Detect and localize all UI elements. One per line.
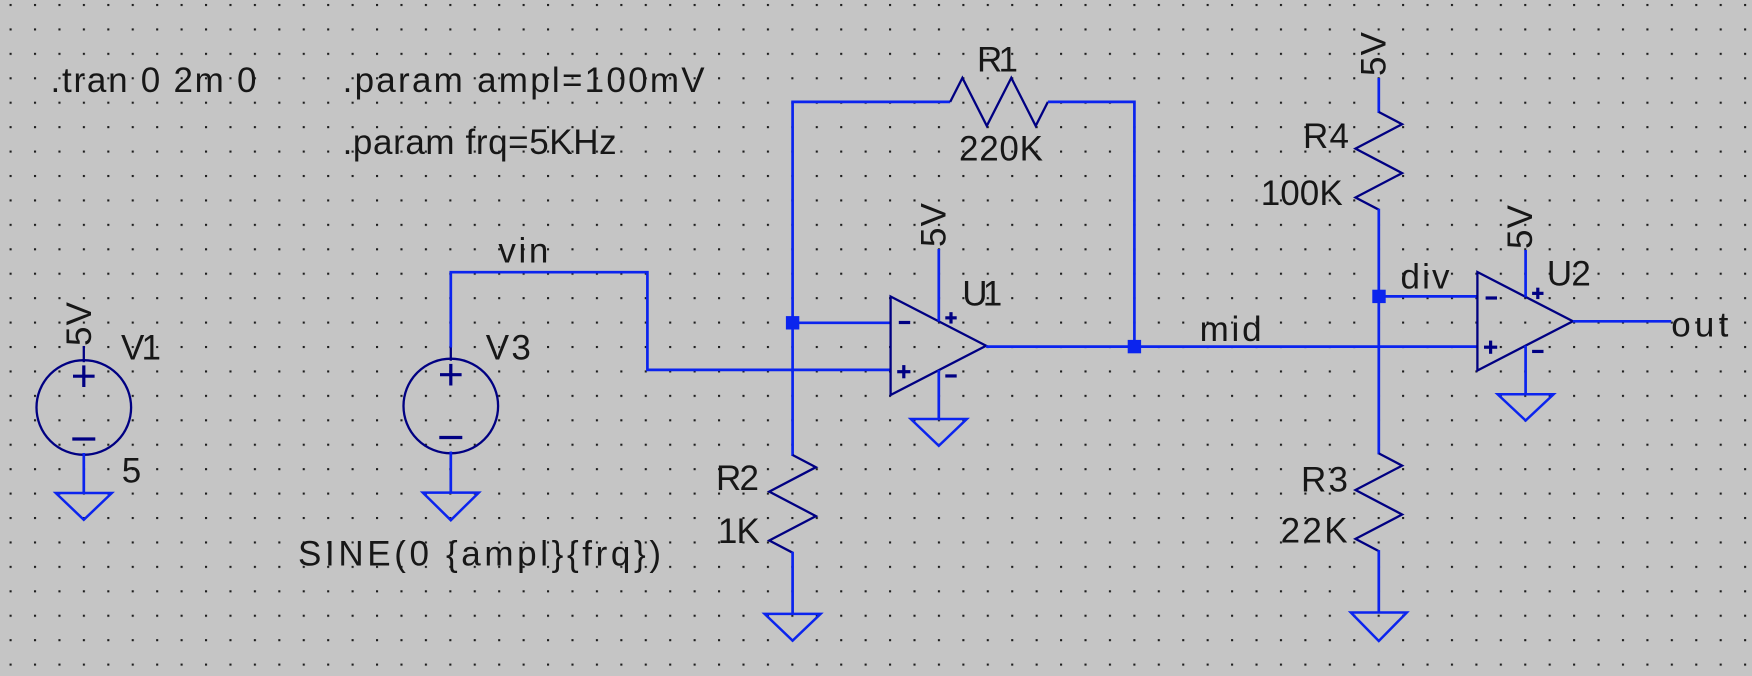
wire feedback right (R1 down to mid) [1048,102,1135,347]
junction node mid [1128,340,1141,353]
value label 100K (R4) [1261,174,1343,213]
wire U2 supply to ground [1524,346,1527,395]
label R2 [716,459,759,498]
label V3 [486,329,531,368]
svg-text:.param frq=5KHz: .param frq=5KHz [343,123,617,162]
label R3 [1301,461,1348,500]
wire R4 to R3 (through div node) [1377,209,1380,455]
spice directive .param frq [343,123,617,162]
svg-text:U2: U2 [1547,255,1591,294]
svg-text:out: out [1671,306,1728,345]
ground (V3) [423,493,479,521]
wire 5V supply to U2 [1524,250,1527,297]
wire V1 to ground [82,453,85,493]
svg-text:22K: 22K [1281,512,1348,551]
label V1 [121,329,161,368]
svg-text:R1: R1 [977,41,1018,80]
svg-text:SINE(0 {ampl}{frq}): SINE(0 {ampl}{frq}) [298,535,661,574]
net label 5V (U2 supply) [1501,204,1540,249]
svg-text:5V: 5V [60,301,99,346]
spice directive .param ampl [343,61,706,100]
wire inverting node to R2 [791,323,794,456]
label U2 [1547,255,1591,294]
junction node div [1372,290,1385,303]
svg-text:5V: 5V [1355,31,1394,76]
resistor R4 [1356,112,1403,210]
value label 1K (R2) [718,512,760,551]
svg-text:V3: V3 [486,329,531,368]
op-amp U2 [1477,272,1573,371]
wire U2 output to out [1573,320,1671,323]
wire 5V to R4 [1377,78,1380,113]
net label 5V (R4 top) [1355,31,1394,76]
ground (V1) [56,493,112,520]
wire R3 to ground [1377,550,1380,612]
resistor R2 [769,455,816,553]
net label mid [1200,310,1262,349]
net label 5V (V1 top) [60,301,99,346]
svg-text:R2: R2 [716,459,759,498]
svg-text:mid: mid [1200,310,1262,349]
wire U1 supply to ground [937,370,940,419]
net label div [1401,258,1451,297]
resistor R3 [1356,453,1403,551]
wire U1 minus input [793,321,891,324]
wire R2 to ground [791,552,794,614]
svg-text:V1: V1 [121,329,161,368]
wire net mid (U1 output to U2 noninverting input) [986,345,1477,348]
svg-text:.tran 0 2m 0: .tran 0 2m 0 [51,61,257,100]
value label 220K (R1) [959,130,1043,169]
net label 5V (U1 supply) [915,202,954,247]
svg-text:5: 5 [122,451,141,490]
ground (R3) [1351,613,1407,642]
svg-text:U1: U1 [962,274,1002,313]
ground (U1) [911,419,967,446]
svg-text:vin: vin [498,232,548,271]
label R1 [977,41,1018,80]
svg-text:5V: 5V [1501,204,1540,249]
voltage source V3 [404,345,499,454]
svg-text:220K: 220K [959,130,1043,169]
svg-text:100K: 100K [1261,174,1343,213]
value label 5 (V1) [122,451,141,490]
label U1 [962,274,1002,313]
wire V3 to ground [449,452,452,493]
net label vin [498,232,548,271]
net label out [1671,306,1728,345]
svg-text:R4: R4 [1303,117,1349,156]
svg-text:div: div [1401,258,1451,297]
wire net vin (V3 to U1 noninverting input) [451,272,891,370]
svg-text:5V: 5V [915,202,954,247]
value label SINE(0 {ampl}{frq}) (V3) [298,535,661,574]
wire div to U2 minus input [1379,295,1477,298]
svg-text:1K: 1K [718,512,760,551]
wire 5V supply to U1 [937,249,940,321]
value label 22K (R3) [1281,512,1348,551]
voltage source V1 [37,346,132,455]
spice directive .tran [51,61,257,100]
ground (R2) [765,614,821,641]
op-amp U1 [891,297,987,396]
label R4 [1303,117,1349,156]
svg-text:R3: R3 [1301,461,1348,500]
ground (U2) [1498,394,1554,420]
wire feedback left (junction up to R1) [793,102,951,323]
resistor R1 [950,78,1048,126]
junction node at U1 inverting input [786,316,799,329]
